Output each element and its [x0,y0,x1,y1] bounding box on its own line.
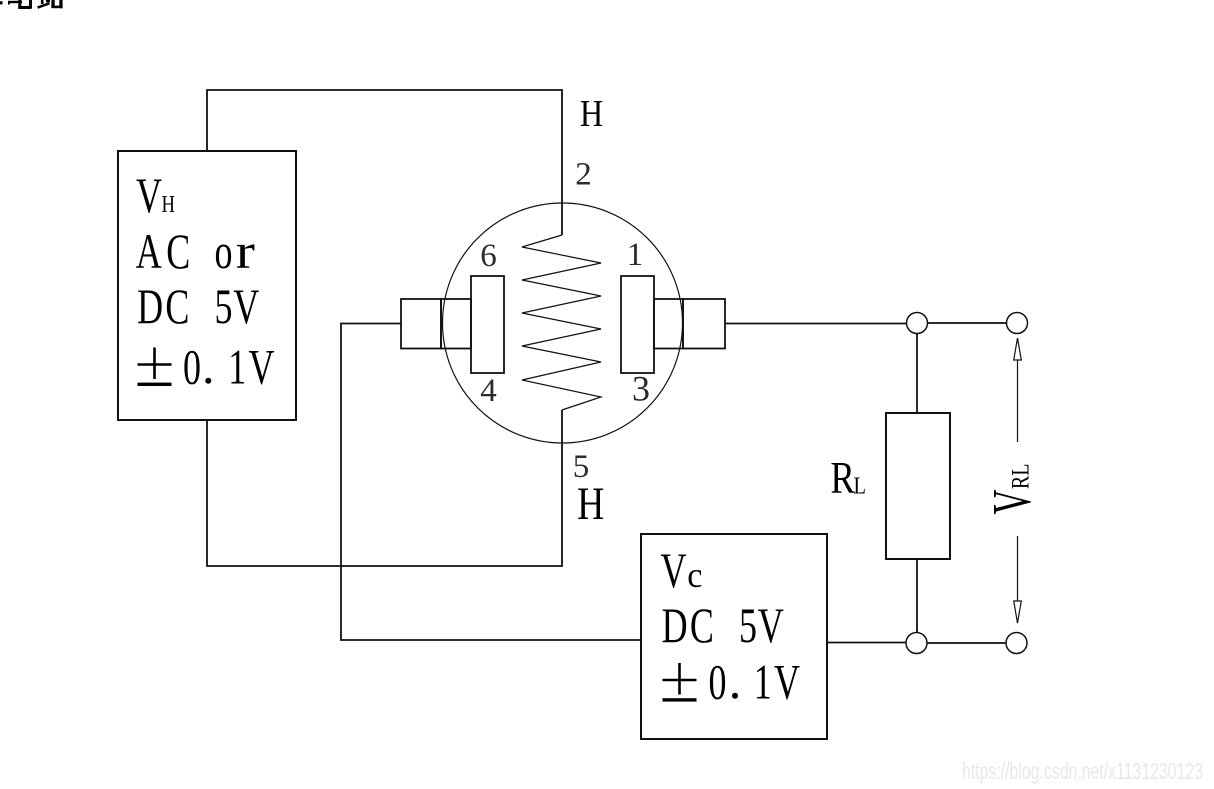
svg-text:V: V [233,279,259,334]
svg-text:D: D [137,279,163,334]
wire VH+ to pin 2 (top) [207,90,562,235]
svg-text:3: 3 [632,369,650,409]
svg-text:4: 4 [480,373,497,409]
title text fragment (clipped Chinese heading) [0,0,63,9]
node A terminal circle [907,313,928,334]
svg-text:o: o [215,224,233,279]
left electrode plate (pins 6/4) [471,276,504,373]
VRL measurement line (lower) [1017,536,1019,601]
source box VC [641,534,827,739]
svg-text:C: C [165,279,189,334]
svg-text:V: V [661,543,687,598]
svg-text:C: C [690,598,714,653]
svg-text:V: V [981,489,1042,514]
plus-minus sign (circuit) [663,663,697,695]
svg-text:L: L [853,472,865,499]
wire VC+ to node C (bottom) [827,642,906,644]
svg-text:https://blog.csdn.net/x1131230: https://blog.csdn.net/x1131230123 [962,758,1203,784]
svg-text:D: D [662,598,688,653]
svg-text:6: 6 [480,238,497,274]
right terminal tab inner [654,299,683,349]
svg-text:1: 1 [627,237,644,273]
net label H (top) [580,93,603,135]
label VRL (rotated) [981,464,1042,515]
heater resistor zigzag (pins 2-5) [522,235,601,410]
svg-text:H: H [580,93,603,135]
wire RL bottom to node C [916,559,918,633]
wire pin 5 to VH- (bottom loop) [207,410,562,566]
node B terminal circle [1007,313,1028,334]
VRL measurement line (upper) [1017,360,1019,442]
right terminal tab outer [683,299,725,349]
svg-text:5: 5 [215,279,233,334]
label DC 5V (heater) [137,279,259,334]
svg-text:V: V [758,598,784,653]
svg-text:C: C [166,224,190,279]
svg-text:0: 0 [709,655,727,710]
sensor body circle [443,203,683,443]
label VH [136,168,175,223]
wire node A to RL top [916,334,918,413]
node C terminal circle [906,633,927,654]
resistor RL body [886,413,950,559]
wire node C to node D (bottom) [928,642,1007,644]
svg-text:A: A [136,224,162,279]
left terminal tab outer [401,299,441,349]
svg-text:c: c [687,555,702,595]
label VC [661,543,703,598]
plus-minus sign (heater) [138,348,172,380]
svg-text:RL: RL [1006,464,1034,490]
svg-text:R: R [830,453,855,504]
svg-text:1: 1 [228,340,246,395]
VRL measurement arrow (bottom, pointing down) [1014,601,1022,623]
svg-text:V: V [774,655,800,710]
svg-text:H: H [577,478,604,530]
label ±0.1V (circuit) [663,655,800,710]
label DC 5V (circuit) [662,598,784,653]
svg-text:0: 0 [183,340,201,395]
wire node A to node B (top) [928,322,1007,324]
svg-text:1: 1 [754,655,772,710]
svg-text:2: 2 [575,157,592,193]
left terminal tab inner [441,299,471,349]
svg-text:V: V [249,340,275,395]
svg-text:5: 5 [739,598,757,653]
net label H (bottom) [577,478,604,530]
wire right electrode to node A [725,323,907,325]
svg-text:r: r [236,223,255,279]
wire left electrode to VC- [341,324,641,641]
node D terminal circle [1006,633,1027,654]
right electrode plate (pins 1/3) [621,276,654,373]
label AC or [136,223,255,279]
source box VH [118,151,296,420]
svg-text:V: V [136,168,162,223]
VRL measurement arrow (top, pointing up) [1014,338,1022,360]
label RL [830,453,866,504]
svg-text:H: H [162,191,176,218]
label ±0.1V (heater) [138,340,275,395]
